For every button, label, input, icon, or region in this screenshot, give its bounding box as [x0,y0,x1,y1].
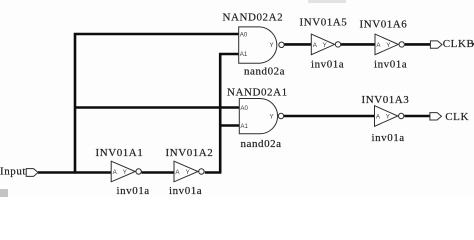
input port Input [26,169,38,177]
svg-text:inv01a: inv01a [169,185,202,197]
wire branch to NAND02A1 pin A0 [74,106,240,109]
inverter U5 INV01A5 [311,34,340,55]
svg-text:Y: Y [270,42,274,49]
svg-text:INV01A6: INV01A6 [360,18,408,30]
wire from INV01A6 output to CLKB port [405,43,431,46]
svg-text:inv01a: inv01a [372,132,405,144]
svg-text:Y: Y [186,169,190,176]
svg-text:Input: Input [0,166,26,178]
svg-text:A0: A0 [240,31,248,38]
svg-text:A0: A0 [240,105,248,112]
wire stub at right edge of CLKB net [472,43,474,45]
wire from NAND02A2 output Y to INV01A5 input [284,43,311,46]
svg-text:A1: A1 [240,123,248,130]
wire left riser from Input net up and over to NAND02A2 pin A0 [75,34,239,173]
svg-text:CLKB: CLKB [443,38,474,50]
wire from NAND02A1 output Y to INV01A3 input [284,115,375,118]
inverter U2 INV01A2 [174,161,204,182]
svg-text:nand02a: nand02a [241,138,282,150]
svg-text:INV01A1: INV01A1 [96,147,144,159]
svg-text:A1: A1 [240,51,248,58]
svg-text:NAND02A1: NAND02A1 [227,87,288,99]
wire branch to NAND02A1 pin A1 [220,124,239,127]
svg-text:inv01a: inv01a [311,59,344,71]
wire from INV01A3 output to CLK port [404,115,429,118]
svg-text:CLK: CLK [445,111,469,123]
svg-text:NAND02A2: NAND02A2 [223,12,284,24]
svg-text:Y: Y [386,114,390,121]
svg-text:inv01a: inv01a [117,185,150,197]
wire from INV01A1 output to INV01A2 input [142,171,175,174]
svg-text:INV01A2: INV01A2 [166,147,214,159]
wire right riser from inverter chain up to NAND02A2 pin A1 [220,54,239,173]
svg-text:Y: Y [123,169,127,176]
wire from Input port to INV01A1 input [38,171,111,174]
svg-text:nand02a: nand02a [244,65,285,77]
nand gate U4 NAND02A1 [239,99,283,134]
output port CLKB [430,41,442,48]
inverter U7 INV01A3 [375,106,404,127]
wire from INV01A2 output to riser node [205,171,222,174]
svg-text:INV01A3: INV01A3 [362,94,410,106]
svg-text:Y: Y [323,42,327,49]
wire from INV01A5 output to INV01A6 input [341,43,375,46]
inverter U1 INV01A1 [111,161,141,182]
svg-text:Y: Y [270,113,274,120]
svg-text:INV01A5: INV01A5 [300,17,348,29]
nand gate U3 NAND02A2 [239,27,284,63]
output port CLK [430,113,442,120]
inverter U6 INV01A6 [375,34,404,55]
svg-text:inv01a: inv01a [374,59,407,71]
svg-text:Y: Y [386,42,390,49]
